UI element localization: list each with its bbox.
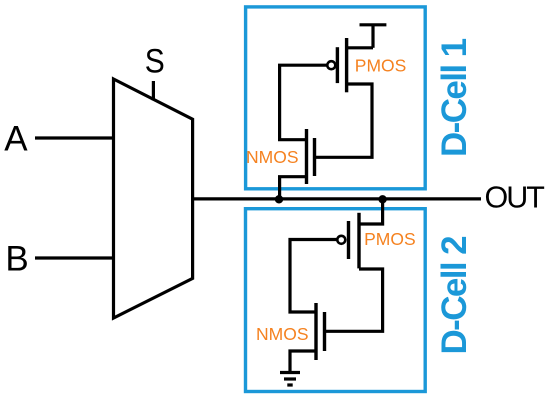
svg-text:D-Cell 1: D-Cell 1 xyxy=(435,38,474,157)
svg-text:D-Cell 2: D-Cell 2 xyxy=(435,236,474,355)
svg-text:OUT: OUT xyxy=(485,181,545,215)
svg-text:PMOS: PMOS xyxy=(355,56,407,76)
svg-text:A: A xyxy=(4,120,28,159)
svg-text:NMOS: NMOS xyxy=(246,147,299,167)
svg-text:NMOS: NMOS xyxy=(256,324,309,344)
svg-text:PMOS: PMOS xyxy=(364,229,416,249)
svg-text:B: B xyxy=(5,239,28,278)
svg-text:S: S xyxy=(145,43,165,81)
